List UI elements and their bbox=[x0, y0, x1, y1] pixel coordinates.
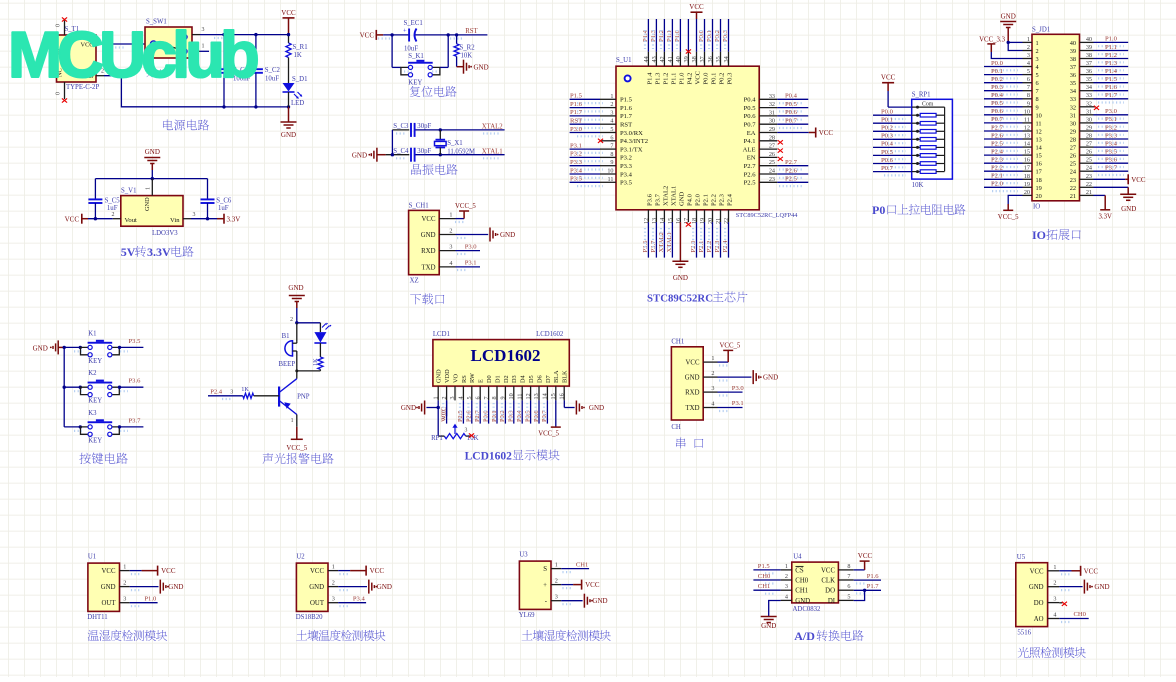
svg-text:0: 0 bbox=[56, 92, 62, 95]
U1 EA pin to VCC power port bbox=[777, 132, 809, 134]
svg-text:P1.4: P1.4 bbox=[642, 29, 649, 42]
svg-text:P3.1: P3.1 bbox=[465, 260, 477, 267]
svg-text:2: 2 bbox=[1036, 48, 1039, 55]
svg-text:IO: IO bbox=[1032, 228, 1046, 242]
svg-text:15: 15 bbox=[1036, 153, 1042, 160]
U1 pin 23 P2.5 bbox=[759, 181, 777, 183]
svg-text:3: 3 bbox=[332, 596, 335, 603]
svg-text:6: 6 bbox=[610, 134, 613, 141]
svg-text:26: 26 bbox=[1070, 153, 1076, 160]
svg-text:13: 13 bbox=[1036, 137, 1042, 144]
U1 pin 19 P2.1 (bottom) bbox=[704, 210, 706, 222]
svg-text:XTAL2: XTAL2 bbox=[662, 186, 669, 206]
svg-text:S_U1: S_U1 bbox=[616, 57, 632, 64]
svg-text:S_R1: S_R1 bbox=[293, 44, 308, 51]
svg-text:1: 1 bbox=[1027, 36, 1030, 43]
title serial port bbox=[676, 438, 703, 449]
svg-text:P3.0: P3.0 bbox=[570, 126, 583, 133]
svg-text:P2.4: P2.4 bbox=[727, 193, 734, 206]
svg-text:3.3V: 3.3V bbox=[1098, 214, 1111, 221]
no-connect X bottom of T1 bbox=[62, 98, 67, 102]
svg-text:Com: Com bbox=[922, 101, 934, 107]
wire P3.3 to JD1 pin 28 bbox=[1094, 138, 1129, 140]
wire P2.4 to base bbox=[208, 395, 243, 397]
svg-text:P1.1: P1.1 bbox=[670, 73, 677, 85]
svg-text:P0.6: P0.6 bbox=[991, 108, 1004, 115]
svg-text:EA: EA bbox=[747, 130, 756, 137]
svg-text:DI: DI bbox=[828, 598, 836, 605]
svg-text:P4.1: P4.1 bbox=[744, 138, 756, 145]
svg-text:P1.5: P1.5 bbox=[1105, 76, 1118, 83]
svg-text:GND: GND bbox=[474, 63, 489, 71]
LED D2 alarm bbox=[319, 323, 321, 332]
svg-text:D4: D4 bbox=[520, 374, 527, 383]
wire P3.2 to JD1 pin 29 bbox=[1094, 130, 1129, 132]
RP1 resistor 4 bbox=[912, 138, 921, 140]
svg-text:XTAL2: XTAL2 bbox=[482, 124, 504, 131]
svg-text:9: 9 bbox=[500, 396, 507, 399]
svg-text:25: 25 bbox=[1070, 161, 1076, 168]
svg-text:P2.1: P2.1 bbox=[703, 194, 710, 206]
svg-text:P1.1: P1.1 bbox=[1105, 44, 1117, 51]
svg-text:8: 8 bbox=[847, 563, 850, 570]
resistor R4 1K base bbox=[243, 393, 254, 398]
svg-text:GND: GND bbox=[1121, 205, 1136, 213]
svg-text:VO: VO bbox=[452, 373, 459, 383]
svg-text:6: 6 bbox=[474, 396, 481, 399]
U1 pin 34 P0.3 (top) bbox=[728, 52, 730, 66]
svg-text:ALE: ALE bbox=[743, 146, 756, 153]
svg-text:XTAL2: XTAL2 bbox=[658, 232, 665, 252]
svg-text:12: 12 bbox=[525, 393, 532, 399]
RP1 resistor 8 bbox=[912, 171, 921, 173]
U1 pin 18 P2.0 (bottom) bbox=[696, 210, 698, 222]
svg-text:XTAL1: XTAL1 bbox=[482, 148, 503, 155]
svg-text:5V: 5V bbox=[121, 245, 136, 259]
svg-text:30: 30 bbox=[769, 118, 775, 125]
svg-text:P1.3: P1.3 bbox=[654, 72, 661, 85]
svg-text:33: 33 bbox=[1070, 96, 1076, 103]
svg-text:VCC: VCC bbox=[686, 360, 700, 367]
svg-text:1: 1 bbox=[432, 396, 439, 399]
svg-text:11: 11 bbox=[1036, 120, 1042, 127]
svg-text:P3.0: P3.0 bbox=[732, 385, 745, 392]
svg-text:VCC_5: VCC_5 bbox=[998, 214, 1019, 221]
svg-text:STC89C52RC_LQFP44: STC89C52RC_LQFP44 bbox=[736, 212, 798, 219]
svg-text:P2.7: P2.7 bbox=[744, 163, 757, 170]
U1 pin 3 P1.7 bbox=[600, 115, 616, 117]
pin 0 top of T1 bbox=[64, 21, 66, 36]
title reset circuit bbox=[410, 86, 457, 97]
svg-text:P1.7: P1.7 bbox=[1105, 92, 1118, 99]
svg-text:D5: D5 bbox=[528, 375, 535, 383]
svg-text:P3.7: P3.7 bbox=[1105, 165, 1118, 172]
U1 pin 33 P0.4 bbox=[759, 98, 777, 100]
svg-text:11: 11 bbox=[608, 176, 614, 183]
svg-text:S_C3: S_C3 bbox=[393, 123, 409, 130]
svg-text:11: 11 bbox=[516, 394, 523, 400]
U1 pin 12 P3.6 (bottom) bbox=[647, 210, 649, 222]
no-connect X on U5 DO bbox=[1059, 602, 1062, 604]
capacitor S_C3 30pF bbox=[411, 123, 415, 137]
svg-text:24: 24 bbox=[1070, 169, 1077, 176]
svg-text:P3.1/TX: P3.1/TX bbox=[620, 146, 643, 153]
svg-text:P3.6: P3.6 bbox=[646, 193, 653, 206]
wire P0.6 to RP1 bbox=[873, 163, 912, 165]
U1 pin 16 GND (bottom) bbox=[679, 210, 681, 222]
wire P0.6 to JD1 pin 10 bbox=[984, 114, 1023, 116]
U1 pin 27 ALE bbox=[759, 148, 777, 150]
svg-text:P1.6: P1.6 bbox=[1105, 84, 1118, 91]
svg-text:37: 37 bbox=[1086, 60, 1092, 67]
svg-text:S_R2: S_R2 bbox=[460, 45, 476, 52]
svg-text:P0.3: P0.3 bbox=[722, 29, 729, 42]
svg-text:P2.3: P2.3 bbox=[991, 157, 1004, 164]
title key circuit bbox=[79, 453, 127, 464]
svg-text:P0: P0 bbox=[872, 203, 885, 217]
svg-text:5516: 5516 bbox=[1017, 630, 1031, 637]
svg-text:7: 7 bbox=[1027, 84, 1030, 91]
power port VCC to JD1 pin23 bbox=[1094, 178, 1126, 180]
svg-text:CH0: CH0 bbox=[795, 578, 808, 585]
svg-text:VCC: VCC bbox=[370, 567, 385, 575]
svg-text:P2.0: P2.0 bbox=[695, 193, 702, 206]
svg-text:GND: GND bbox=[309, 584, 324, 591]
svg-text:30: 30 bbox=[1070, 120, 1076, 127]
svg-text:27: 27 bbox=[769, 143, 775, 150]
buzzer B1 BEEP bbox=[296, 323, 298, 342]
svg-text:U4: U4 bbox=[793, 554, 802, 561]
svg-text:P3.5: P3.5 bbox=[129, 338, 142, 345]
svg-text:P1.0: P1.0 bbox=[1105, 36, 1118, 43]
svg-text:U1: U1 bbox=[88, 554, 96, 561]
svg-text:2: 2 bbox=[112, 212, 115, 218]
svg-text:GND: GND bbox=[352, 151, 367, 159]
svg-text:P1.6: P1.6 bbox=[570, 101, 583, 108]
svg-text:P1.5: P1.5 bbox=[570, 93, 583, 100]
svg-text:24: 24 bbox=[769, 168, 775, 175]
svg-text:P0.3: P0.3 bbox=[727, 72, 734, 85]
RP1 resistor 6 bbox=[912, 154, 921, 156]
svg-text:BEEP: BEEP bbox=[279, 361, 296, 368]
svg-text:11: 11 bbox=[1024, 116, 1030, 123]
svg-text:GND: GND bbox=[795, 598, 810, 605]
svg-text:GND: GND bbox=[1094, 583, 1109, 591]
svg-text:P4.3/INT2: P4.3/INT2 bbox=[620, 138, 648, 145]
wire P0.4 to JD1 pin 8 bbox=[984, 98, 1023, 100]
wire P1.6 CLK bbox=[854, 579, 881, 581]
svg-text:14: 14 bbox=[1036, 145, 1043, 152]
svg-text:P0.7: P0.7 bbox=[991, 116, 1004, 123]
svg-text:2: 2 bbox=[711, 370, 714, 377]
U1 pin 29 EA bbox=[759, 132, 777, 134]
svg-text:LED: LED bbox=[291, 100, 304, 107]
svg-text:VCC: VCC bbox=[881, 74, 896, 82]
wire P3.0 to JD1 pin 31 bbox=[1094, 114, 1129, 116]
U1 pin 1 P1.5 bbox=[600, 98, 616, 100]
svg-text:3.3V: 3.3V bbox=[147, 245, 171, 259]
U1 pin 15 XTAL1 (bottom) bbox=[671, 210, 673, 222]
RP1 resistor 1 bbox=[912, 114, 921, 116]
wire XTAL2 net bbox=[392, 129, 409, 131]
regulator S_V1 LDO3V3 bbox=[121, 196, 183, 227]
wire VCC to RST bbox=[383, 34, 409, 36]
wire P0.3 to RP1 bbox=[873, 138, 912, 140]
svg-text:GND: GND bbox=[421, 232, 436, 239]
U1 pin 40 P1.0 (top) bbox=[679, 52, 681, 66]
svg-text:S_EC1: S_EC1 bbox=[404, 20, 423, 27]
wire P0.4 to RP1 bbox=[873, 146, 912, 148]
svg-text:D7: D7 bbox=[545, 375, 552, 383]
pin 1 of SW1 bbox=[192, 50, 200, 52]
svg-text:4: 4 bbox=[785, 593, 788, 600]
svg-text:26: 26 bbox=[1086, 149, 1092, 156]
wire P1.4 to JD1 pin 36 bbox=[1094, 74, 1129, 76]
push button K2 KEY bbox=[64, 386, 80, 388]
pin 3 of SW1 bbox=[192, 34, 200, 36]
svg-text:KEY: KEY bbox=[408, 80, 422, 87]
svg-text:35: 35 bbox=[1070, 80, 1076, 87]
svg-text:VCC: VCC bbox=[821, 567, 835, 574]
svg-text:P0.0: P0.0 bbox=[881, 109, 894, 116]
svg-text:4: 4 bbox=[449, 260, 452, 267]
svg-text:3: 3 bbox=[449, 396, 456, 399]
op IC S_U1 STC89C52RC_LQFP44 bbox=[616, 66, 759, 210]
svg-text:1: 1 bbox=[123, 564, 126, 571]
display LCD1 LCD1602 bbox=[433, 340, 569, 387]
svg-text:10uF: 10uF bbox=[404, 46, 418, 53]
wire P3.1 serial bbox=[718, 407, 743, 409]
svg-text:RXD: RXD bbox=[421, 248, 435, 255]
power port 3.3V to JD1 pin21 bbox=[1094, 194, 1106, 196]
capacitor S_C4 30pF bbox=[411, 148, 415, 162]
svg-text:2: 2 bbox=[290, 317, 293, 323]
wire P0.2 to JD1 pin 6 bbox=[984, 82, 1023, 84]
svg-text:XTAL1: XTAL1 bbox=[670, 186, 677, 206]
svg-text:P0.7: P0.7 bbox=[881, 165, 894, 172]
svg-text:2: 2 bbox=[1027, 44, 1030, 51]
svg-text:VCC: VCC bbox=[440, 407, 447, 420]
svg-text:30pF: 30pF bbox=[417, 148, 431, 155]
svg-text:VCC_3.3: VCC_3.3 bbox=[979, 37, 1005, 44]
U1 pin 11 P3.5 bbox=[600, 181, 616, 183]
svg-text:P0.1: P0.1 bbox=[881, 117, 893, 124]
svg-text:3: 3 bbox=[230, 389, 233, 395]
svg-text:P0.0: P0.0 bbox=[698, 29, 705, 42]
wire P0.3 to JD1 pin 7 bbox=[984, 90, 1023, 92]
svg-text:13: 13 bbox=[1024, 133, 1030, 140]
wire SW1 pin3 to VCC rail bbox=[200, 34, 289, 36]
svg-text:P0.3: P0.3 bbox=[881, 133, 894, 140]
svg-text:P2.2: P2.2 bbox=[991, 165, 1003, 172]
svg-text:36: 36 bbox=[1086, 68, 1092, 75]
wire P0.2 to RP1 bbox=[873, 130, 912, 132]
svg-text:OUT: OUT bbox=[102, 600, 117, 607]
wire VDD pin2 down bbox=[446, 400, 448, 416]
svg-text:23: 23 bbox=[769, 176, 775, 183]
svg-text:4: 4 bbox=[711, 401, 714, 408]
svg-text:34: 34 bbox=[1070, 88, 1077, 95]
svg-text:DO: DO bbox=[825, 588, 835, 595]
U1 pin 44 P1.4 (top) bbox=[647, 52, 649, 66]
svg-text:RST: RST bbox=[570, 118, 582, 125]
wire P0.0 to RP1 bbox=[873, 114, 912, 116]
svg-text:S_CH1: S_CH1 bbox=[409, 203, 429, 210]
svg-text:P0.2: P0.2 bbox=[714, 30, 721, 42]
svg-text:27: 27 bbox=[1086, 141, 1092, 148]
svg-text:VCC: VCC bbox=[585, 581, 600, 589]
wire P1.6 to JD1 pin 34 bbox=[1094, 90, 1129, 92]
svg-text:27: 27 bbox=[1070, 145, 1076, 152]
connector S_CH1 XZ download port bbox=[409, 210, 440, 274]
svg-text:P0.3: P0.3 bbox=[991, 84, 1004, 91]
svg-text:GND: GND bbox=[168, 583, 183, 591]
LED S_D1 bbox=[283, 83, 295, 92]
svg-text:P3.0/RX: P3.0/RX bbox=[620, 130, 643, 137]
wire P3.6 bbox=[120, 386, 144, 388]
svg-text:STC89C52RC: STC89C52RC bbox=[647, 293, 713, 305]
svg-text:P0.4: P0.4 bbox=[881, 141, 894, 148]
svg-text:P3.4: P3.4 bbox=[570, 167, 583, 174]
wire P2.3 to JD1 pin 16 bbox=[984, 162, 1023, 164]
svg-text:20: 20 bbox=[1024, 189, 1030, 196]
wire T1 pin2 to ground rail bbox=[104, 76, 224, 107]
svg-text:P1.1: P1.1 bbox=[666, 30, 673, 42]
wire P2.7 to JD1 pin 12 bbox=[984, 130, 1023, 132]
svg-text:1: 1 bbox=[785, 563, 788, 570]
svg-text:CLK: CLK bbox=[821, 578, 835, 585]
RP1 resistor 7 bbox=[912, 163, 921, 165]
svg-text:3: 3 bbox=[449, 244, 452, 251]
svg-text:P2.5: P2.5 bbox=[457, 410, 464, 422]
svg-text:+: + bbox=[403, 28, 407, 35]
svg-text:CH1: CH1 bbox=[671, 339, 684, 346]
resistor R3 1K alarm bbox=[319, 343, 321, 357]
svg-text:DO: DO bbox=[1034, 600, 1044, 607]
svg-text:P0.5: P0.5 bbox=[881, 149, 894, 156]
svg-text:3: 3 bbox=[555, 594, 558, 601]
svg-text:P0.6: P0.6 bbox=[881, 157, 894, 164]
svg-text:P0.5: P0.5 bbox=[785, 101, 798, 108]
svg-text:VCC: VCC bbox=[281, 9, 296, 17]
RP1 resistor 3 bbox=[912, 130, 921, 132]
svg-text:P0.2: P0.2 bbox=[499, 410, 506, 422]
svg-text:16: 16 bbox=[1024, 157, 1030, 164]
svg-text:37: 37 bbox=[699, 56, 706, 62]
U1 pin 42 P1.2 (top) bbox=[663, 52, 665, 66]
U1 pin 37 P0.0 (top) bbox=[704, 52, 706, 66]
svg-text:17: 17 bbox=[1024, 165, 1030, 172]
svg-text:1K: 1K bbox=[294, 52, 302, 59]
svg-text:CH: CH bbox=[671, 424, 681, 431]
svg-text:16: 16 bbox=[558, 393, 565, 399]
wire BLA pin15 to VCC_5 bbox=[555, 400, 557, 427]
svg-text:GND: GND bbox=[500, 231, 515, 239]
wire P0.7 to JD1 pin 11 bbox=[984, 122, 1023, 124]
resistor S_R2 10K bbox=[456, 35, 458, 44]
svg-text:14: 14 bbox=[1024, 141, 1030, 148]
svg-text:41: 41 bbox=[667, 56, 674, 62]
svg-text:P1.2: P1.2 bbox=[662, 73, 669, 85]
svg-text:7: 7 bbox=[847, 573, 850, 580]
svg-text:D2: D2 bbox=[503, 375, 510, 383]
svg-text:E: E bbox=[478, 379, 485, 383]
U1 pin 24 P2.6 bbox=[759, 173, 777, 175]
svg-text:5: 5 bbox=[847, 593, 850, 600]
svg-text:21: 21 bbox=[1070, 193, 1076, 200]
svg-text:P2.7: P2.7 bbox=[474, 410, 481, 422]
svg-text:K1: K1 bbox=[88, 330, 96, 337]
svg-text:3: 3 bbox=[465, 428, 468, 434]
svg-text:18: 18 bbox=[1024, 173, 1030, 180]
svg-text:GND: GND bbox=[281, 131, 296, 139]
svg-text:GND: GND bbox=[592, 597, 607, 605]
U1 pin 30 P0.7 bbox=[759, 123, 777, 125]
U5 VCC to power bbox=[1059, 570, 1071, 572]
U1 pin 38 VCC (top) bbox=[696, 52, 698, 66]
svg-text:5: 5 bbox=[1036, 72, 1039, 79]
U1 pin 41 P1.1 (top) bbox=[671, 52, 673, 66]
svg-text:9: 9 bbox=[1036, 104, 1039, 111]
svg-text:MCUclub: MCUclub bbox=[8, 18, 258, 91]
svg-text:28: 28 bbox=[1070, 137, 1076, 144]
svg-text:P3.7: P3.7 bbox=[654, 193, 661, 206]
wire P2.6 to JD1 pin 13 bbox=[984, 138, 1023, 140]
svg-text:P3.3: P3.3 bbox=[1105, 132, 1118, 139]
svg-text:CS: CS bbox=[795, 567, 804, 574]
svg-text:P1.7: P1.7 bbox=[620, 113, 633, 120]
push button K1 KEY bbox=[64, 346, 80, 348]
svg-text:P3.1: P3.1 bbox=[570, 142, 582, 149]
push button S_K1 KEY bbox=[391, 35, 393, 68]
svg-text:15: 15 bbox=[1024, 149, 1030, 156]
U1 pin 6 P4.3/INT2 bbox=[600, 140, 616, 142]
title light detection module bbox=[1018, 647, 1086, 658]
svg-text:13: 13 bbox=[533, 393, 540, 399]
svg-text:2: 2 bbox=[555, 578, 558, 585]
svg-text:39: 39 bbox=[1086, 44, 1092, 51]
svg-text:P0.0: P0.0 bbox=[703, 72, 710, 85]
svg-text:6: 6 bbox=[847, 583, 850, 590]
U1 pin 20 P2.2 (bottom) bbox=[712, 210, 714, 222]
svg-text:GND: GND bbox=[401, 404, 416, 412]
svg-text:3.3V: 3.3V bbox=[227, 216, 241, 224]
wire P3.4 to JD1 pin 27 bbox=[1094, 146, 1129, 148]
svg-text:17: 17 bbox=[1036, 169, 1042, 176]
svg-text:AO: AO bbox=[1034, 616, 1044, 623]
power ground GND reset bbox=[457, 66, 464, 68]
svg-text:VCC: VCC bbox=[1030, 568, 1044, 575]
svg-text:GND: GND bbox=[33, 344, 48, 352]
svg-text:1uF: 1uF bbox=[107, 205, 118, 212]
svg-text:11.0592M: 11.0592M bbox=[447, 148, 475, 155]
U1 pin 8 P3.2 bbox=[600, 156, 616, 158]
svg-text:LDO3V3: LDO3V3 bbox=[152, 230, 178, 237]
wire P0.1 to JD1 pin 5 bbox=[984, 74, 1023, 76]
svg-text:P0.0: P0.0 bbox=[991, 60, 1004, 67]
svg-text:P3.5: P3.5 bbox=[620, 180, 633, 187]
svg-text:P4.0: P4.0 bbox=[686, 193, 693, 206]
svg-text:S: S bbox=[543, 566, 547, 573]
svg-text:GND: GND bbox=[678, 191, 685, 206]
svg-text:TXD: TXD bbox=[686, 405, 700, 412]
svg-text:VCC_5: VCC_5 bbox=[455, 203, 476, 210]
svg-text:P0.7: P0.7 bbox=[541, 410, 548, 422]
sensor U2 DS18B20 bbox=[296, 563, 328, 611]
wire JD1 pin1 pin2 to GND bbox=[1008, 41, 1022, 43]
svg-text:P1.2: P1.2 bbox=[658, 30, 665, 42]
svg-text:22: 22 bbox=[1070, 185, 1076, 192]
